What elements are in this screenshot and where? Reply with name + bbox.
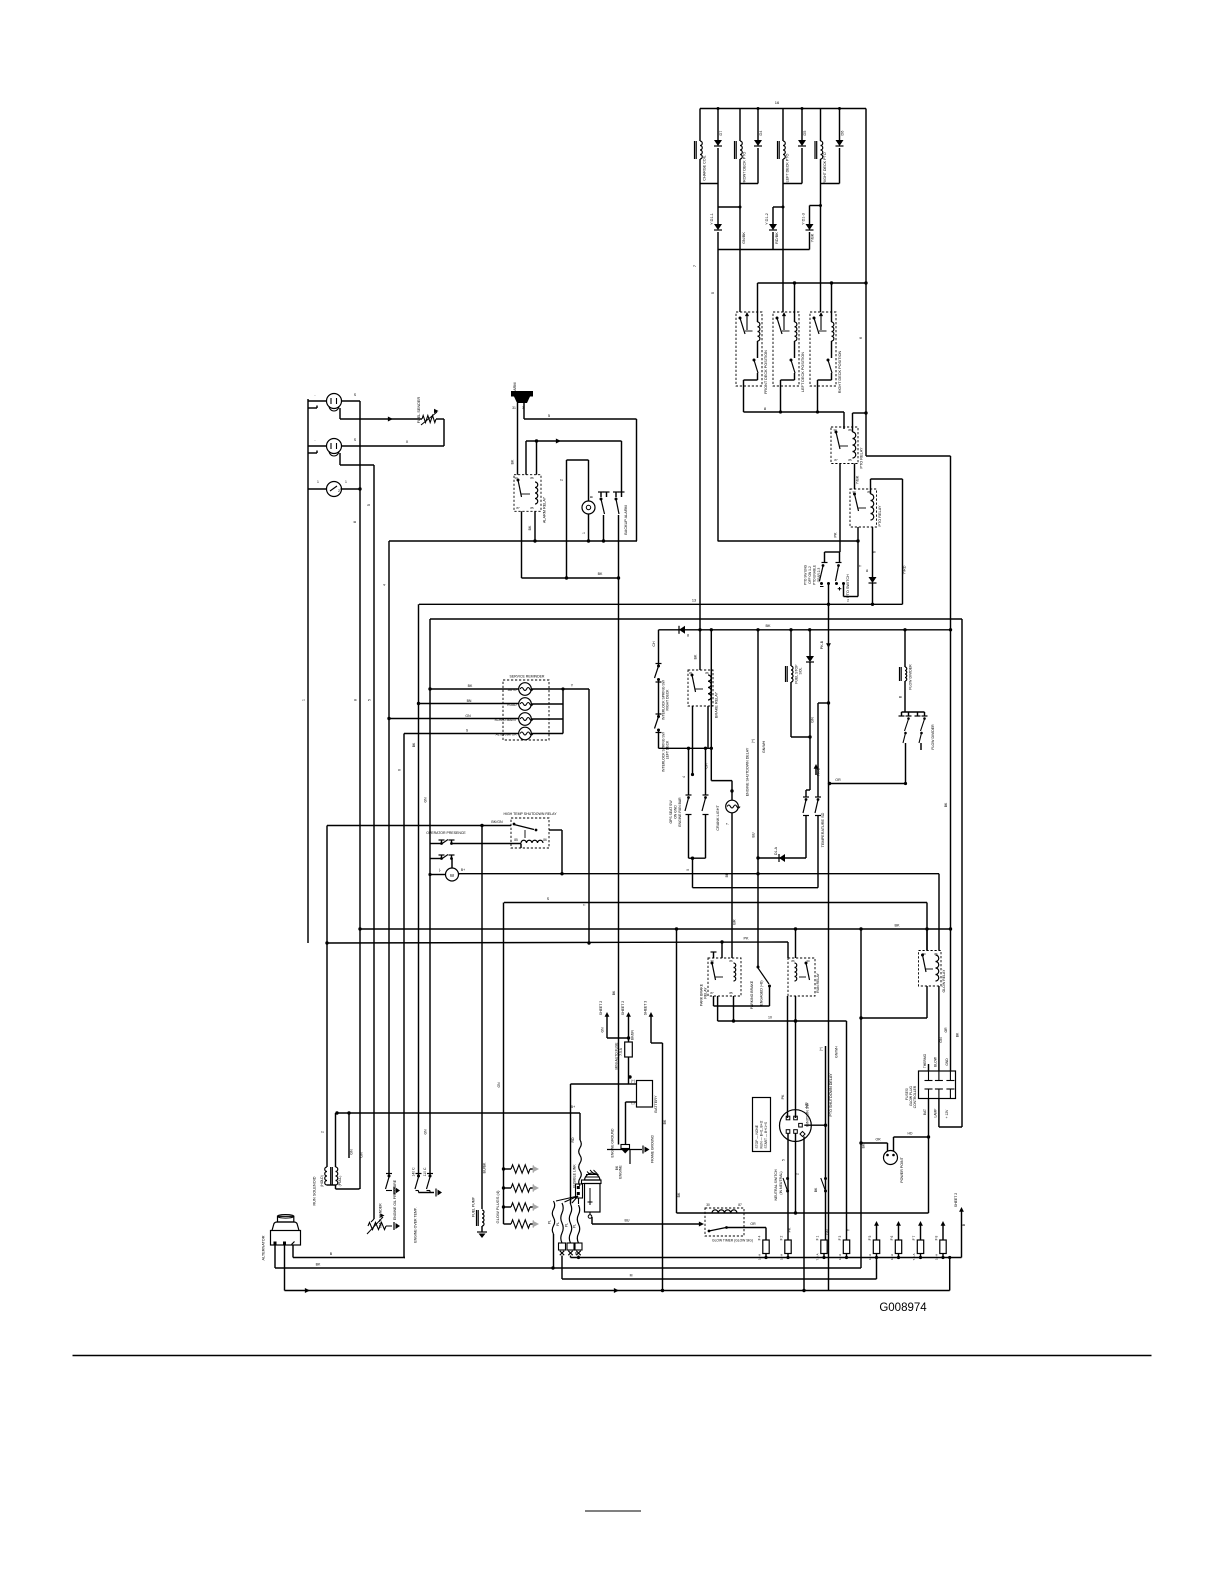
wire BU line (592, 1221, 704, 1226)
svg-text:1: 1 (345, 480, 347, 484)
wire pp left (861, 1143, 888, 1151)
controller bottom pin (946, 1089, 954, 1099)
wire n-bridge (567, 460, 589, 578)
label SHEET 2 a (599, 1001, 603, 1016)
junction 711 748 (710, 747, 713, 750)
junction ops drop (691, 857, 694, 860)
wire crank jog (711, 781, 732, 801)
glow plug 1 (504, 1165, 540, 1173)
svg-text:B+: B+ (571, 1105, 575, 1109)
svg-text:8: 8 (866, 569, 868, 573)
label HIGH TEMP (503, 812, 557, 816)
svg-text:GN: GN (826, 1229, 830, 1235)
label GLOW TIME (712, 1239, 753, 1243)
label lamp out Y (571, 684, 574, 688)
label FUEL GAUGE minus (314, 393, 316, 397)
wire brake relay coil out (707, 706, 709, 748)
svg-text:D7: D7 (719, 131, 723, 136)
svg-text:PL: PL (556, 1222, 560, 1226)
label BU/BK fp (483, 1162, 487, 1173)
label x404 tick (398, 769, 402, 771)
svg-text:BACKUP ALARM: BACKUP ALARM (624, 505, 628, 534)
wire relay bottom link 1 (744, 373, 758, 380)
overtemp sw1 (415, 1174, 422, 1193)
label FRONT DECK PTO (743, 152, 747, 185)
svg-text:PTO ENABLE: PTO ENABLE (813, 565, 817, 585)
wire relayB coil out (795, 996, 797, 1118)
label FLOW DIVIDER SOL (909, 664, 913, 690)
wire PTO relay coil out (854, 464, 856, 490)
svg-text:POWER POINT: POWER POINT (900, 1156, 904, 1182)
junction 829 783 (828, 782, 831, 785)
label CONTROLLER (913, 1085, 917, 1108)
label x418 tick (412, 742, 416, 747)
wire diode branch 4 (838, 107, 841, 184)
label 5b (548, 413, 551, 418)
svg-text:2: 2 (847, 599, 849, 603)
label GN 360 (360, 1152, 364, 1158)
svg-text:BK: BK (598, 572, 603, 576)
label BATTERY (654, 1095, 658, 1113)
junction 795 1213 (794, 1211, 797, 1214)
inductor relay coil 1 (758, 322, 760, 341)
svg-text:BK: BK (468, 684, 473, 688)
label 8 wire (353, 521, 357, 523)
controller bottom pin (935, 1089, 943, 1099)
svg-text:7.5 A: 7.5 A (816, 1253, 820, 1261)
label pin87 a (516, 506, 520, 510)
label FUSIBLE LINK (573, 1164, 577, 1188)
junction 629 end (949, 628, 952, 631)
wire parking brake out (714, 986, 770, 1006)
wire relay output rail (744, 410, 845, 413)
junction 722 942 (720, 940, 723, 943)
svg-text:BK: BK (894, 924, 900, 928)
legend box (753, 1098, 771, 1152)
wire y1113 (337, 1112, 580, 1114)
label BU 758 (752, 832, 756, 837)
sheet2 arrow b (626, 1012, 631, 1042)
wire crank out long (731, 813, 733, 958)
svg-text:ENGINE OVER TEMP.: ENGINE OVER TEMP. (414, 1207, 418, 1243)
junction 795 1021 (794, 1019, 797, 1022)
wire fuel sol out (791, 682, 810, 737)
wire D9 out (871, 583, 874, 606)
PTO sw2 tbar (836, 563, 842, 567)
junction glow 3 (502, 1205, 505, 1208)
junction 795 929 (794, 927, 797, 930)
label horn B (590, 495, 594, 498)
label RIGHT DECK PTO (823, 152, 827, 183)
text G008974 (879, 1302, 927, 1314)
wire lamp collector (562, 689, 564, 734)
label x962 tick (956, 1032, 960, 1037)
label IGNITION SW (806, 1103, 810, 1127)
label D6 (841, 131, 845, 136)
svg-text:F 5: F 5 (868, 1235, 872, 1240)
wire bus929 (360, 928, 951, 930)
label FUEL STOP (795, 664, 799, 684)
junction bracket 943 (325, 941, 328, 944)
legend line2 (760, 1120, 764, 1148)
label BAT (923, 1109, 927, 1115)
svg-text:GN/WH: GN/WH (762, 741, 766, 754)
wire F 2 bottom (786, 1254, 789, 1260)
PTO sw2 contacts (835, 582, 845, 585)
wire gauge1 right (342, 400, 361, 402)
label CH 711 (705, 763, 709, 769)
seat sw row1 (439, 840, 455, 845)
seat connector W (446, 868, 459, 881)
svg-text:GN/WH: GN/WH (835, 1046, 839, 1058)
relayC blade (921, 954, 926, 973)
svg-text:86: 86 (543, 838, 547, 842)
PTO relay dashed link (840, 445, 848, 447)
label CH interlock (652, 641, 656, 647)
svg-text:(-: (- (439, 868, 441, 872)
wire fuel pump gnd (477, 1226, 487, 1238)
label B alt (330, 1252, 333, 1256)
svg-text:5: 5 (367, 504, 371, 506)
junction 791 629 (789, 628, 792, 631)
wire relay coil bottom 2 (794, 341, 796, 358)
junction 950 929 (949, 927, 952, 930)
ops sw2 (702, 795, 709, 858)
run solenoid (325, 1167, 338, 1185)
svg-text:RD/BK: RD/BK (775, 232, 779, 244)
svg-text:GLOW PLUGS (4): GLOW PLUGS (4) (495, 1190, 500, 1224)
wire PTO2 coil out (872, 527, 874, 577)
junction 795 1021b (794, 1019, 797, 1022)
wire sheet jog (607, 1037, 629, 1039)
svg-text:5: 5 (368, 699, 372, 701)
label ENGAGED (760, 980, 764, 1005)
svg-text:GEAR 2-3: GEAR 2-3 (817, 568, 821, 583)
starter bottom stub (588, 1212, 592, 1218)
arrow on alarm wire (556, 438, 561, 443)
label OPS1 (669, 800, 673, 824)
svg-text:BN: BN (467, 699, 472, 703)
svg-text:30: 30 (852, 490, 856, 494)
svg-text:D4: D4 (759, 131, 763, 136)
wire 927 drop (926, 903, 928, 951)
relay box ALARM RELAY (514, 475, 541, 512)
wire backup alarm drop (621, 441, 623, 492)
label bus604a (692, 599, 696, 603)
wire row2 d1 bottom (717, 232, 719, 250)
svg-text:87: 87 (516, 506, 520, 510)
label D9 (866, 569, 868, 573)
svg-text:HIGH TEMP SHUTDOWN RELAY: HIGH TEMP SHUTDOWN RELAY (503, 812, 557, 816)
label D7 (719, 131, 723, 136)
label RUN SOLENOID (313, 1176, 317, 1205)
svg-text:BK: BK (612, 990, 616, 995)
label BLOW (934, 1056, 938, 1067)
wire battery feed down (570, 1084, 572, 1204)
label 7 (692, 264, 697, 267)
parking brake blade (757, 966, 772, 988)
label F 2 (780, 1235, 784, 1240)
link4 box (575, 1243, 582, 1255)
label 110C (423, 1167, 427, 1176)
svg-text:7.5 A: 7.5 A (619, 1047, 623, 1055)
svg-text:LEFT DECK: LEFT DECK (666, 740, 670, 759)
svg-text:1: 1 (317, 480, 319, 484)
relay lower blade 1 (753, 359, 759, 374)
label x732 tick2 (725, 872, 729, 877)
starter engine stub (618, 1146, 620, 1148)
wire seat row1 (430, 844, 521, 849)
label BK 861 (862, 1143, 866, 1148)
label SHEET 2 b (621, 1001, 625, 1016)
fusible link 3 (569, 1204, 571, 1243)
svg-text:CONTROLLER: CONTROLLER (913, 1085, 917, 1108)
wire run sol right top (335, 1113, 337, 1167)
label relayA pin87 (710, 991, 714, 995)
alarm relay blade (517, 479, 522, 498)
svg-text:SHEET 2: SHEET 2 (599, 1001, 603, 1016)
fuse F 8 (940, 1240, 946, 1254)
flow div sw2 (915, 716, 928, 743)
svg-text:START — B+I1+S: START — B+I1+S (764, 1121, 768, 1148)
starter fusible link wavy (579, 1140, 582, 1186)
label Y/RD (903, 565, 907, 574)
glow timer blade (708, 1226, 728, 1232)
label GN 938 (939, 1037, 943, 1043)
wire coil3 drop (782, 184, 784, 313)
wire lamp out (561, 687, 589, 690)
wire relay output 1 (743, 380, 745, 412)
junction 758 629 (756, 628, 759, 631)
inductor FRONT DECK PTO (735, 141, 743, 159)
wire relay bottom link 3 (818, 373, 832, 380)
wire 949 drop (948, 1256, 951, 1291)
svg-text:FRONT DECK POSITION: FRONT DECK POSITION (764, 350, 768, 394)
label GN 349 (350, 1149, 354, 1155)
svg-text:Y/BK: Y/BK (856, 475, 860, 484)
wire branch bottom 3 (783, 183, 802, 185)
svg-text:PTO RELAY: PTO RELAY (878, 505, 882, 526)
arrow on PTO line (826, 643, 831, 648)
svg-text:PK: PK (743, 937, 749, 941)
wire seat row2 (430, 859, 452, 869)
oil pressure switch (386, 1174, 401, 1195)
svg-text:10 A: 10 A (780, 1253, 784, 1260)
label PARKING BRAKE (750, 980, 754, 1009)
glow controller box (919, 1071, 956, 1099)
label lamp ALTERNATOR (496, 733, 518, 737)
wire charge-coil output down (699, 184, 701, 630)
wire relay arrow 2 (782, 312, 786, 330)
label X wire (406, 440, 409, 444)
wire YRD down (902, 479, 904, 604)
label RD 570 (571, 1137, 575, 1143)
starter body (585, 1184, 601, 1213)
wire gauge2 bottom jog (340, 453, 374, 465)
wire lamp ROAD right (531, 703, 563, 705)
svg-text:87: 87 (834, 458, 838, 462)
label ENGINE GROUND (611, 1128, 615, 1158)
label D4 (759, 131, 763, 136)
sheet2 arrow a (605, 1012, 610, 1038)
label PL 4 (573, 1224, 577, 1228)
label SERVICE REMINDER (510, 675, 545, 679)
relayB link (799, 976, 806, 978)
label ops 4 (682, 776, 686, 778)
wire coil branch 2 (739, 109, 741, 184)
relayC link (926, 968, 933, 970)
wire y902 line (504, 902, 927, 904)
wire y858 diode line (758, 857, 806, 859)
label ENGINE (619, 1165, 623, 1179)
wire overtemp common (419, 1189, 443, 1197)
svg-text:HD: HD (805, 1102, 809, 1108)
label x589 tick (583, 903, 587, 906)
junction 430 689 (428, 687, 431, 690)
wire relayB pin1 (787, 942, 789, 958)
wire left bracket vertical (326, 826, 328, 1168)
svg-text:PL: PL (548, 1220, 552, 1224)
temp sd1 (803, 797, 809, 831)
label FLOW DIVIDER SW (931, 724, 935, 750)
svg-text:ENGINE RUN BAR: ENGINE RUN BAR (678, 797, 682, 827)
wire into PTO relay switch (843, 412, 845, 429)
wire relayA pin2 (721, 942, 723, 958)
gauge TEMP GAUGE (327, 439, 342, 454)
label TEMP GAUGE minus (314, 438, 316, 442)
label lamp ROAD (507, 703, 517, 707)
fuel sender zigzag (421, 409, 439, 425)
label D1-A (774, 846, 778, 855)
label x327 tick (321, 1131, 325, 1133)
label RD/BK (775, 232, 779, 244)
label x429 tick (424, 1129, 428, 1135)
wire glow timer out (727, 1228, 767, 1241)
wire relayB pin2 (795, 929, 797, 958)
wire lamp AUTO right (531, 688, 563, 690)
svg-text:RIGHT DECK: RIGHT DECK (666, 689, 670, 711)
wire x711 nothing (710, 747, 712, 749)
svg-text:RIGHT DECK POSITION: RIGHT DECK POSITION (838, 350, 842, 393)
inductor RIGHT DECK PTO (815, 141, 823, 159)
svg-text:Y D1-3: Y D1-3 (802, 213, 806, 225)
ignition pin (794, 1116, 798, 1120)
relay box GLOW RELAY (919, 951, 942, 987)
label Y/BK (856, 475, 860, 484)
ops sw1 (685, 795, 692, 858)
svg-text:PARKING BRAKE: PARKING BRAKE (750, 980, 754, 1009)
lamp box dashed (503, 680, 549, 740)
svg-text:BK/GN: BK/GN (491, 820, 503, 824)
junction 711 629 (710, 628, 713, 631)
label 16 (775, 100, 780, 105)
label THERMO (923, 1053, 927, 1068)
wire y873 drop (938, 874, 940, 951)
label x360 tick2 (354, 699, 358, 701)
label x430 tick2 (424, 797, 428, 803)
wire y825 line (327, 825, 511, 827)
svg-text:Y/RD: Y/RD (903, 565, 907, 574)
controller top pin (925, 1071, 933, 1081)
inductor alarm relay coil (535, 482, 538, 504)
svg-text:PK: PK (834, 532, 838, 538)
label BR crank (733, 919, 737, 925)
label FUEL PUMP (472, 1196, 476, 1217)
diode D5 (798, 140, 806, 146)
label F 1 (816, 1235, 820, 1240)
wire y1021 (718, 1020, 847, 1022)
ignition connector circle (780, 1110, 812, 1142)
seat sw row2 (439, 855, 455, 860)
label GN/BK (742, 232, 746, 244)
svg-text:87: 87 (738, 1203, 742, 1207)
wire flow div out2 (920, 743, 922, 750)
wire x389 long (388, 541, 390, 1176)
label GLOW RELAY (942, 969, 946, 993)
wire relayC sw out (926, 986, 928, 1018)
label BK 677 (677, 1192, 681, 1197)
svg-text:HD: HD (908, 1132, 913, 1136)
wire bus1257 right (571, 1257, 962, 1259)
PTO relay2 switch blade (853, 493, 859, 512)
wire seat conn left (428, 873, 445, 876)
inductor relay coil 2 (795, 322, 797, 341)
label alarm pin2 (522, 406, 524, 410)
label lamp wire GN (465, 714, 471, 718)
wire temp sd1 up (805, 831, 807, 858)
svg-text:SOL: SOL (799, 667, 803, 674)
engine ground (621, 1145, 630, 1154)
label 8 (764, 406, 767, 411)
sheet arrow above fuse (896, 1221, 901, 1240)
svg-text:Y D1-2: Y D1-2 (765, 213, 769, 225)
label D5 (803, 131, 807, 136)
svg-text:FLOW DIVIDER: FLOW DIVIDER (909, 664, 913, 690)
label OR gt (750, 1222, 756, 1226)
junction 360 929 (358, 927, 361, 930)
svg-text:BRAKE RELAY: BRAKE RELAY (715, 691, 719, 718)
svg-text:B+: B+ (461, 868, 465, 872)
junction 928 1137 (927, 1135, 930, 1138)
wire diode branch 3 (801, 107, 804, 184)
label FUEL GAUGE plus (354, 393, 357, 397)
svg-text:85: 85 (514, 838, 518, 842)
label y629 BK (765, 624, 771, 628)
controller top pin (935, 1071, 943, 1081)
svg-text:86: 86 (934, 952, 938, 956)
wire relayA pin1 (711, 952, 717, 958)
label gt87 (738, 1203, 742, 1207)
relay box PARK BRAKE RELAY (708, 958, 741, 996)
label PTO SWITCH (846, 574, 850, 598)
junction 618 578 (617, 576, 620, 579)
backup sw2 stubs (613, 492, 625, 497)
svg-text:10: 10 (768, 1016, 772, 1020)
label amp F 3 (838, 1253, 842, 1260)
label RELAY A2 (704, 987, 708, 999)
wire relayA third pin (717, 996, 719, 1021)
wire row2 top link 3 (810, 204, 823, 224)
svg-text:G008974: G008974 (879, 1302, 927, 1314)
wire run sol bottom (327, 1185, 360, 1189)
wire high temp out (549, 830, 562, 874)
relayA link (716, 976, 724, 978)
label SOL (799, 667, 803, 674)
wire bus1279 (562, 1258, 877, 1280)
wire flow div out1 (904, 743, 907, 785)
svg-text:PTO SHUTDOWN DELAY: PTO SHUTDOWN DELAY (829, 1073, 833, 1117)
svg-text:ENGAGED (+B): ENGAGED (+B) (760, 980, 764, 1005)
